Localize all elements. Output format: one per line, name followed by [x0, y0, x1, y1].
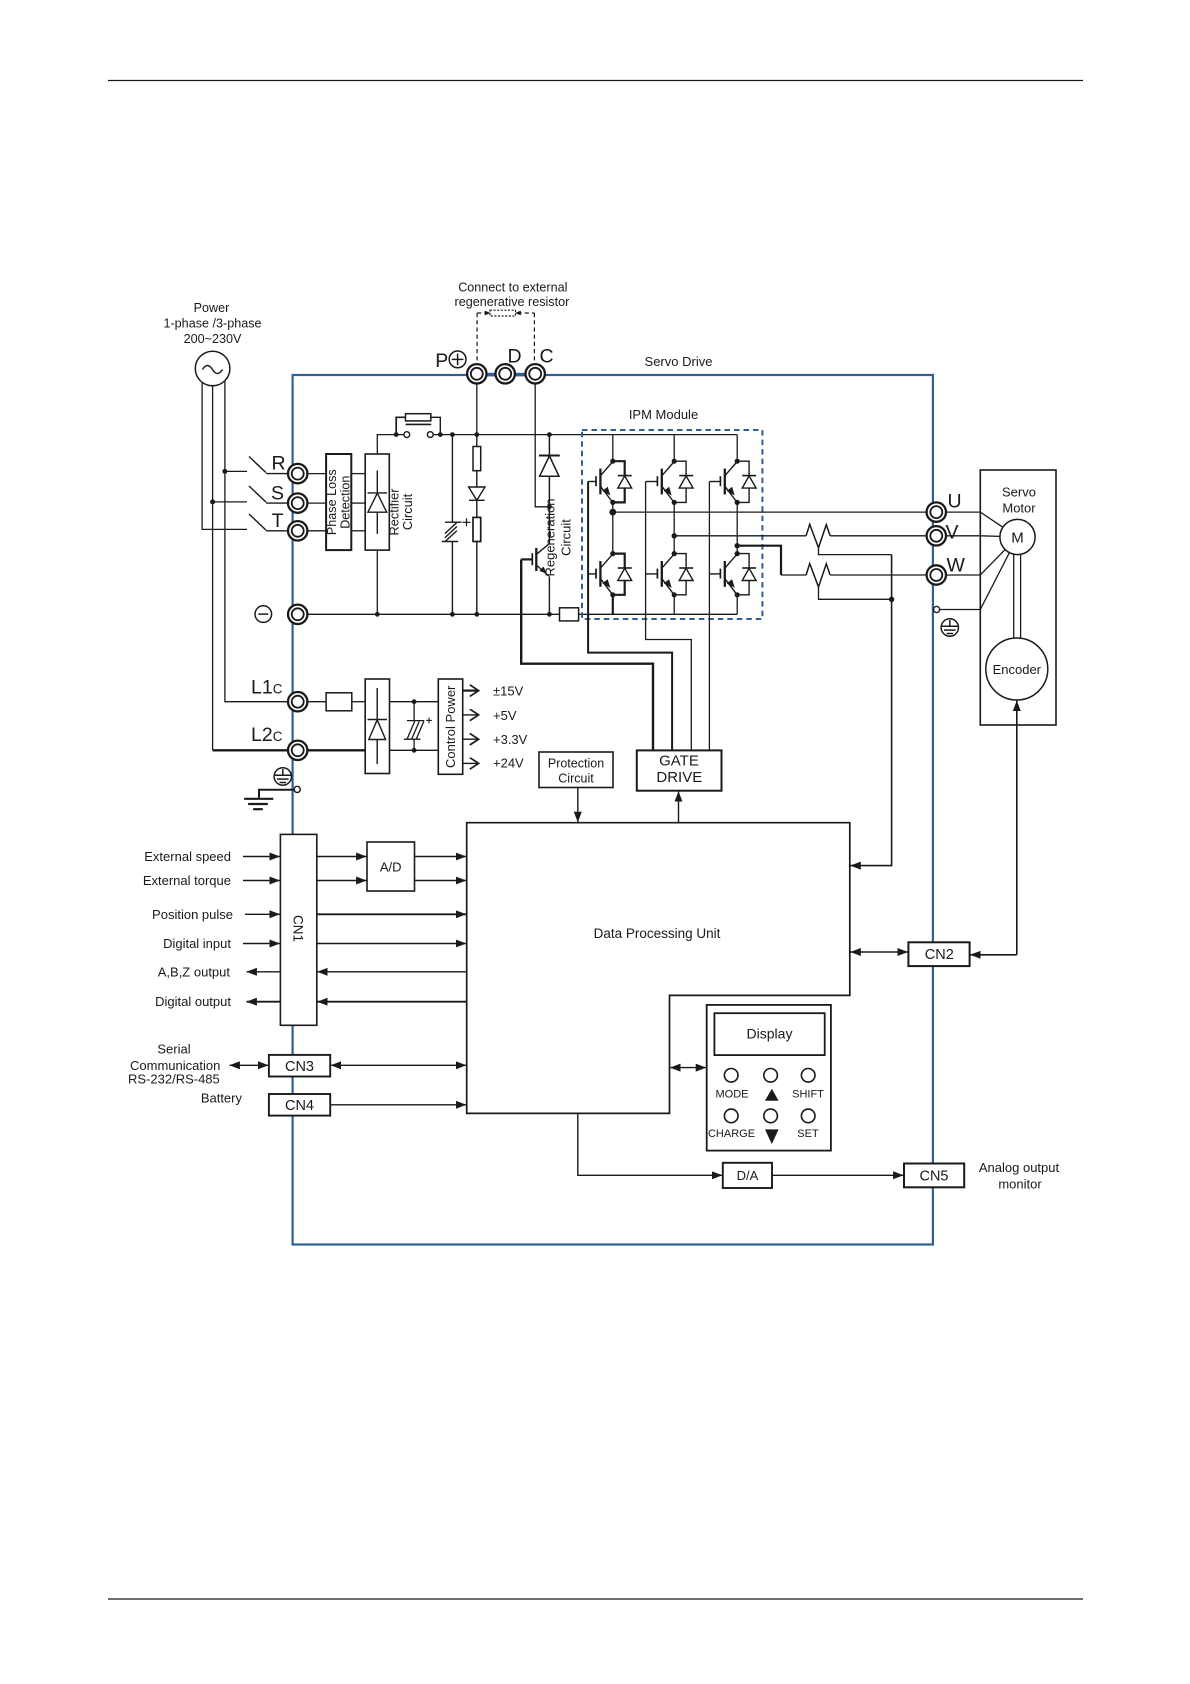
svg-text:±15V: ±15V: [493, 683, 524, 698]
node cap top: [412, 699, 417, 704]
node C joins regen: [547, 504, 552, 509]
wire U to motor: [946, 512, 1003, 527]
button DOWN: [764, 1109, 778, 1123]
wire L1C to fuse: [307, 701, 326, 703]
IGBT Q2: [657, 459, 693, 505]
IGBT Q1: [596, 459, 632, 505]
svg-text:+5V: +5V: [493, 708, 517, 723]
wire ground to motor: [940, 553, 1010, 610]
svg-text:External torque: External torque: [143, 873, 231, 888]
svg-text:Servo: Servo: [1002, 485, 1036, 500]
terminal L2C: [288, 741, 307, 760]
node cap negative: [450, 612, 455, 617]
IGBT Q6: [720, 551, 756, 597]
node cap bottom: [412, 748, 417, 753]
current sensor V: [806, 524, 830, 548]
rectifier label: [386, 488, 415, 536]
sensor W tap: [819, 587, 892, 599]
leg V mid vertical: [673, 502, 675, 553]
regen IGBT: [521, 544, 549, 614]
soft charge resistor: [396, 417, 405, 434]
svg-text:Connect to external: Connect to external: [458, 281, 567, 295]
svg-text:Circuit: Circuit: [400, 493, 415, 530]
DPU to panel double arrow: [670, 1067, 706, 1069]
svg-text:C: C: [540, 346, 554, 368]
gate bus 1 to gate drive: [588, 482, 672, 751]
terminal P: [467, 364, 486, 383]
regen gate wire to gate drive: [521, 559, 653, 750]
terminal W: [927, 565, 946, 584]
D/A converter: [723, 1163, 772, 1188]
svg-text:CN3: CN3: [285, 1059, 314, 1075]
svg-text:Circuit: Circuit: [558, 772, 594, 786]
node regen emitter negative: [547, 612, 552, 617]
node S tap: [210, 499, 215, 504]
motor PE symbol: [941, 619, 958, 636]
leg W mid vertical: [736, 502, 738, 553]
output 3.3V: [463, 738, 478, 740]
display window: [714, 1013, 824, 1055]
DA to CN5 arrow: [772, 1174, 904, 1176]
PE wire to earth: [294, 786, 300, 792]
wire phase B (feeds S, L2C): [212, 386, 214, 751]
svg-text:Regeneration: Regeneration: [543, 498, 558, 576]
svg-text:regenerative resistor: regenerative resistor: [455, 295, 570, 309]
svg-text:L2C: L2C: [251, 724, 283, 746]
wire ABZ from DPU: [317, 971, 466, 973]
svg-text:Protection: Protection: [548, 757, 604, 771]
svg-text:V: V: [946, 522, 959, 544]
svg-text:Encoder: Encoder: [993, 662, 1042, 677]
DPU to gate drive arrow: [678, 791, 680, 822]
button MODE: [724, 1069, 738, 1083]
current feedback wire to DPU: [850, 555, 891, 866]
wire digital input to DPU: [317, 943, 466, 945]
motor shaft: [1013, 554, 1015, 638]
CN3 to DPU double arrow: [331, 1064, 467, 1066]
wire P to bus: [476, 383, 478, 435]
terminal T: [288, 521, 307, 540]
svg-text:Phase Loss: Phase Loss: [325, 469, 339, 535]
IGBT Q5: [657, 551, 693, 597]
node rectifier to negative bus: [376, 550, 378, 614]
current sensor W: [806, 564, 830, 588]
node regen branch: [547, 432, 552, 437]
node discharge negative: [474, 612, 479, 617]
encoder feedback wire: [1016, 701, 1018, 955]
svg-text:Analog output: Analog output: [979, 1160, 1060, 1175]
switch T: [249, 514, 288, 531]
svg-text:GATE: GATE: [659, 752, 699, 769]
svg-text:Circuit: Circuit: [559, 519, 574, 556]
motor ground terminal: [934, 606, 940, 612]
svg-text:1-phase /3-phase: 1-phase /3-phase: [163, 317, 261, 331]
terminal L1C: [288, 692, 307, 711]
svg-text:D/A: D/A: [737, 1168, 759, 1183]
node R tap: [222, 469, 227, 474]
wire L2C to bridge: [307, 749, 365, 751]
CN1 connector: [280, 834, 316, 1025]
svg-text:Power: Power: [194, 301, 230, 315]
leg U emitter to bus: [612, 595, 614, 615]
svg-text:CN5: CN5: [919, 1169, 948, 1185]
svg-text:T: T: [272, 510, 284, 532]
wire digital output from DPU: [317, 1001, 466, 1003]
soft charge relay contact: [404, 432, 410, 438]
wire AD to DPU torque: [415, 880, 467, 882]
CN4 connector: [269, 1094, 330, 1116]
minus sign symbol: [255, 606, 272, 623]
gate bus 3 to gate drive: [708, 482, 710, 751]
control rectifier bridge: [365, 679, 389, 774]
svg-text:RS-232/RS-485: RS-232/RS-485: [128, 1072, 220, 1087]
discharge resistor 1: [476, 435, 478, 447]
button CHARGE: [724, 1109, 738, 1123]
wire position pulse to DPU: [317, 913, 466, 915]
DC bus negative: [307, 613, 560, 615]
thick bus joints between P-D-C terminals: [483, 373, 499, 377]
wire W to motor: [946, 550, 1005, 575]
svg-text:External speed: External speed: [144, 849, 231, 864]
svg-text:Display: Display: [747, 1025, 793, 1041]
external regen resistor note: [455, 281, 570, 310]
svg-text:R: R: [272, 453, 286, 475]
svg-text:200~230V: 200~230V: [184, 332, 242, 346]
svg-text:CN4: CN4: [285, 1098, 314, 1114]
terminal V: [927, 526, 946, 545]
chassis PE symbol: [274, 768, 291, 785]
CN5 connector: [904, 1164, 964, 1188]
DC bus positive: [377, 435, 737, 454]
gate bus 2 to gate drive: [646, 482, 692, 751]
AC source symbol: [195, 351, 230, 386]
svg-text:Serial: Serial: [157, 1042, 190, 1057]
node relay right: [438, 432, 443, 437]
switch S: [249, 486, 288, 503]
svg-text:A,B,Z output: A,B,Z output: [158, 964, 231, 979]
output 5V: [463, 714, 478, 716]
terminal R: [288, 464, 307, 483]
IGBT Q4: [596, 551, 632, 597]
leg V emitter to bus: [673, 595, 675, 615]
earth ground: [244, 799, 273, 809]
svg-text:IPM Module: IPM Module: [629, 407, 698, 422]
power source label: [163, 301, 261, 346]
serial double arrow: [230, 1064, 269, 1066]
svg-text:A/D: A/D: [380, 860, 402, 875]
motor M: [1000, 519, 1035, 554]
wires bridge to control power: [390, 701, 439, 703]
switch R: [249, 457, 288, 474]
svg-text:U: U: [948, 491, 962, 513]
discharge diode: [469, 487, 485, 517]
leg W upper vertical: [736, 435, 738, 462]
wire CN1 to AD speed: [317, 856, 367, 858]
gate drive block: [637, 750, 722, 790]
rectifier block: [365, 454, 389, 550]
regen diode: [539, 435, 560, 544]
wire phase W output: [737, 546, 781, 575]
control power block: [438, 679, 462, 774]
servo motor box: [980, 470, 1056, 725]
button SET: [801, 1109, 815, 1123]
IGBT Q3: [720, 459, 756, 505]
svg-text:Data Processing Unit: Data Processing Unit: [594, 926, 721, 941]
svg-text:+24V: +24V: [493, 756, 524, 771]
terminal C: [526, 364, 545, 383]
page top rule: [108, 80, 1083, 82]
shunt resistor: [560, 608, 579, 621]
leg U mid vertical: [612, 502, 614, 553]
svg-text:+3.3V: +3.3V: [493, 732, 528, 747]
wire phase C (feeds T): [202, 383, 247, 530]
output 24V: [463, 762, 478, 764]
svg-text:MODE: MODE: [716, 1089, 749, 1101]
node relay left: [394, 432, 399, 437]
svg-text:P: P: [435, 350, 448, 372]
wire phase A (feeds R, L1C): [225, 381, 289, 702]
regeneration circuit label: [543, 498, 574, 576]
svg-text:Control Power: Control Power: [443, 685, 458, 768]
control fuse: [326, 693, 352, 711]
node phase U: [609, 509, 616, 516]
svg-text:S: S: [271, 483, 284, 505]
A/D converter: [367, 842, 415, 891]
servo drive enclosure: [293, 375, 933, 1245]
svg-text:L1C: L1C: [251, 677, 283, 699]
external regen resistor (dashed): [477, 310, 534, 364]
leg U upper vertical: [612, 435, 614, 462]
leg V upper vertical: [673, 435, 675, 462]
svg-text:CHARGE: CHARGE: [708, 1128, 755, 1140]
data processing unit: [467, 823, 850, 1114]
sensor V tap: [819, 548, 892, 555]
leg W emitter to bus: [736, 595, 738, 615]
svg-text:DRIVE: DRIVE: [656, 769, 702, 786]
DC bus capacitor: [442, 435, 471, 615]
svg-text:SHIFT: SHIFT: [792, 1089, 824, 1101]
button SHIFT: [801, 1069, 815, 1083]
CN3 connector: [269, 1055, 330, 1077]
terminal DC minus: [288, 605, 307, 624]
node cap branch: [450, 432, 455, 437]
protection to DPU arrow: [577, 788, 579, 823]
terminal D: [496, 364, 515, 383]
svg-text:CN1: CN1: [291, 915, 306, 942]
svg-text:Battery: Battery: [201, 1090, 243, 1105]
button UP: [764, 1069, 778, 1083]
node sensor join: [889, 597, 894, 602]
phase loss detection block: [326, 454, 351, 550]
wire V to motor: [946, 535, 1000, 538]
svg-text:monitor: monitor: [998, 1177, 1042, 1192]
terminal U: [927, 502, 946, 521]
page bottom rule: [108, 1598, 1083, 1600]
svg-text:SET: SET: [797, 1128, 819, 1140]
DPU to CN2 double arrow: [850, 951, 908, 953]
protection circuit block: [539, 752, 613, 788]
wire CN1 to AD torque: [317, 880, 367, 882]
svg-text:Detection: Detection: [338, 476, 352, 529]
control bus capacitor: [404, 702, 432, 751]
svg-text:M: M: [1011, 530, 1024, 547]
svg-text:CN2: CN2: [925, 947, 954, 963]
plus sign symbol: [449, 351, 466, 368]
node phase W: [735, 543, 740, 548]
svg-text:Servo Drive: Servo Drive: [645, 354, 713, 369]
operator panel: [707, 1005, 831, 1151]
output plus minus 15V: [463, 689, 478, 691]
svg-text:Digital output: Digital output: [155, 994, 231, 1009]
svg-text:Digital input: Digital input: [163, 936, 231, 951]
svg-text:Position pulse: Position pulse: [152, 907, 233, 922]
CN4 to DPU arrow: [331, 1104, 467, 1106]
node phase V: [672, 533, 677, 538]
terminal S: [288, 493, 307, 512]
wire C to regen node: [535, 383, 549, 507]
DPU to DA wire: [578, 1113, 723, 1175]
svg-text:W: W: [947, 555, 966, 577]
wire phase V output: [674, 535, 806, 537]
encoder: [986, 638, 1048, 700]
svg-text:Motor: Motor: [1002, 501, 1036, 516]
wire phase U output: [613, 511, 927, 513]
rectifier diode symbol: [368, 471, 388, 534]
wires R S T to phase loss detection: [307, 474, 365, 531]
node P branch: [474, 432, 479, 437]
CN2 connector: [908, 942, 969, 966]
wire AD to DPU speed: [415, 856, 467, 858]
discharge resistor 2: [473, 517, 481, 541]
IPM module dashed box: [582, 430, 762, 619]
